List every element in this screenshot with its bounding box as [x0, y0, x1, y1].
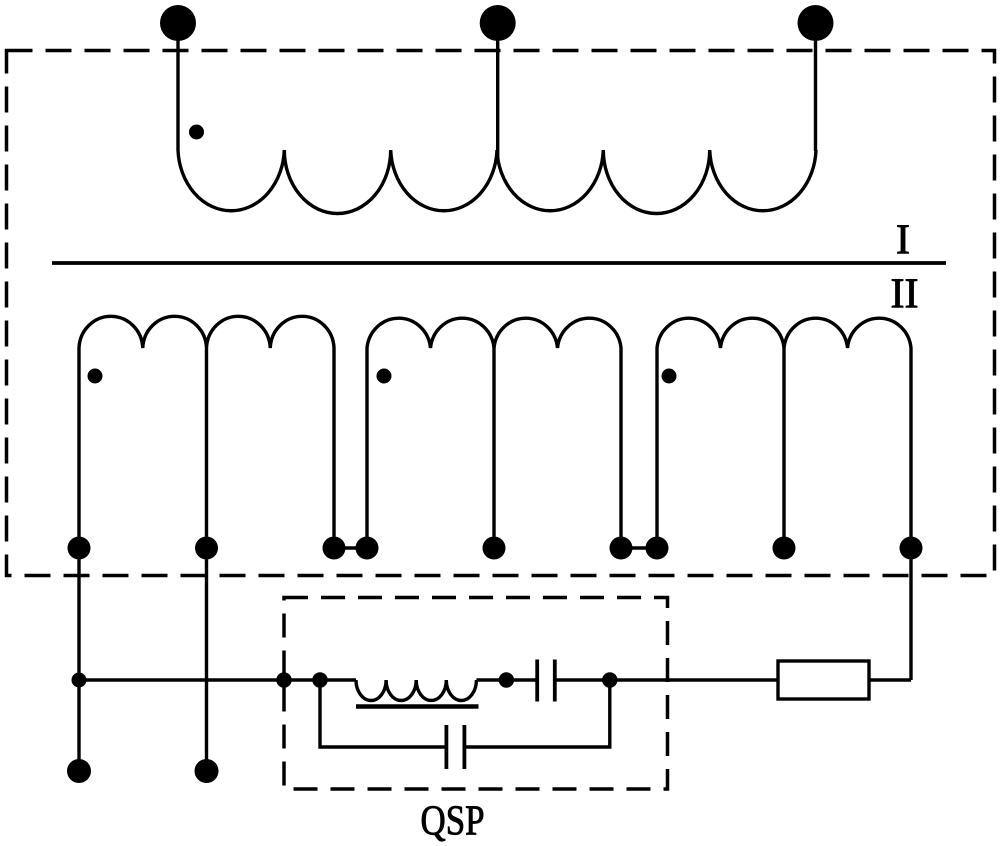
- parallel capacitor C2 plates: [446, 725, 464, 769]
- svg-text:II: II: [891, 272, 919, 318]
- wire lead from terminal B: [496, 38, 499, 163]
- junction dot at QSP parallel branch right: [602, 672, 617, 687]
- inductor L coil: [356, 680, 476, 700]
- svg-text:I: I: [896, 218, 910, 264]
- svg-text:QSP: QSP: [421, 799, 485, 845]
- wire right branch up to node c3: [909, 548, 912, 680]
- wire series capacitor to resistor: [557, 678, 779, 681]
- primary winding I coil: [178, 150, 816, 214]
- main horizontal wire to QSP: [79, 678, 356, 681]
- wire from node a1 down to output: [77, 548, 80, 771]
- wire inductor to series capacitor: [476, 678, 536, 681]
- output terminal dot left: [67, 759, 91, 783]
- wire joining W2 end to W3 start: [621, 546, 657, 549]
- junction dot after inductor: [499, 672, 514, 687]
- terminal B (center primary terminal): [480, 5, 516, 41]
- terminal C (right primary terminal): [798, 5, 834, 41]
- junction on left wire: [72, 673, 87, 688]
- terminal A (left primary terminal): [160, 5, 196, 41]
- polarity dot of W3: [662, 369, 677, 384]
- wire from node a2 down to output: [205, 548, 208, 771]
- wire resistor to right branch: [869, 678, 911, 681]
- secondary winding W1 coil: [79, 316, 334, 548]
- node a2 (W1 tap terminal): [195, 537, 218, 560]
- inductor core underline: [356, 704, 479, 708]
- node c3 (W3 end terminal): [900, 537, 923, 560]
- W2 center tap wire: [492, 348, 495, 548]
- transformer outline dashed box: [7, 51, 995, 576]
- node c2 (W3 tap terminal): [773, 537, 796, 560]
- node a3 (W1 end terminal): [323, 537, 346, 560]
- polarity dot of primary winding: [189, 125, 204, 140]
- node b2 (W2 tap terminal): [483, 537, 506, 560]
- core line between windings: [52, 261, 946, 265]
- wire joining W1 end to W2 start: [334, 546, 367, 549]
- resistor R: [778, 661, 869, 699]
- secondary winding W3 coil: [657, 318, 911, 548]
- polarity dot of W2: [377, 369, 392, 384]
- node b1 (W2 start terminal): [356, 537, 379, 560]
- node a1 (W1 start terminal): [68, 537, 91, 560]
- node b3 (W2 end terminal): [610, 537, 633, 560]
- W1 center tap wire: [205, 348, 208, 548]
- wire lead from terminal C: [814, 38, 817, 151]
- junction dot at QSP parallel branch left: [312, 672, 327, 687]
- output terminal dot right: [195, 759, 219, 783]
- node c1 (W3 start terminal): [646, 537, 669, 560]
- series capacitor C1 plates: [537, 660, 555, 702]
- wire lead from terminal A: [176, 38, 179, 150]
- parallel branch wire left side: [320, 680, 446, 747]
- QSP dashed box: [284, 598, 668, 790]
- secondary winding W2 coil: [367, 318, 621, 548]
- polarity dot of W1: [88, 369, 103, 384]
- W3 center tap wire: [782, 348, 785, 548]
- junction dot on QSP border: [276, 672, 291, 687]
- parallel branch wire right side: [465, 680, 610, 747]
